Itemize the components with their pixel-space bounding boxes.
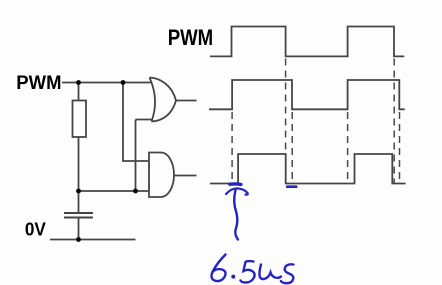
svg-text:0V: 0V bbox=[25, 220, 46, 240]
svg-text:PWM: PWM bbox=[16, 73, 61, 94]
svg-text:PWM: PWM bbox=[168, 25, 214, 50]
